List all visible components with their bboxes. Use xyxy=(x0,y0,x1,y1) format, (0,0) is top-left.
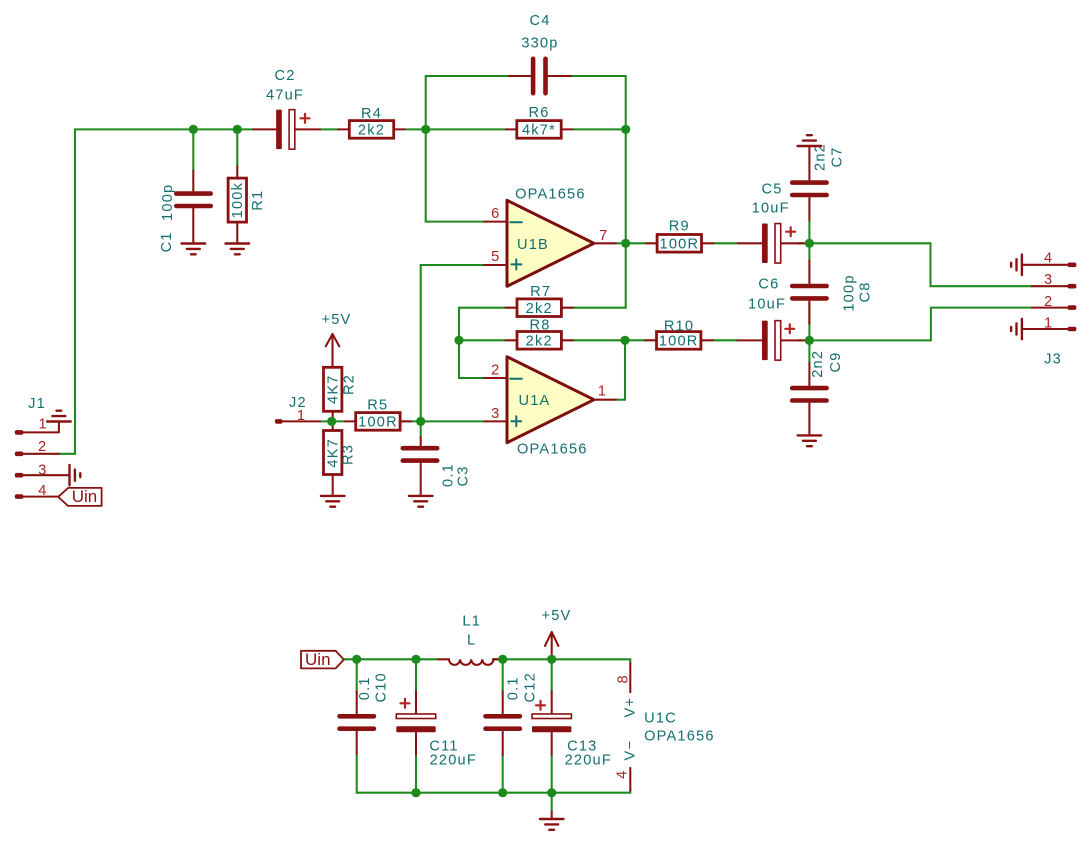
svg-text:R1: R1 xyxy=(250,190,266,211)
wire xyxy=(320,128,338,130)
wire xyxy=(400,420,484,422)
junction xyxy=(416,417,425,426)
ground xyxy=(798,435,822,446)
wire xyxy=(236,129,238,166)
svg-text:C12: C12 xyxy=(522,672,538,702)
ground xyxy=(321,496,345,507)
svg-text:3: 3 xyxy=(491,406,500,422)
svg-text:U1A: U1A xyxy=(519,393,551,409)
capacitor C4 xyxy=(509,13,571,96)
junction xyxy=(454,336,463,345)
wire xyxy=(551,659,553,792)
wire xyxy=(192,129,194,170)
wire xyxy=(808,302,810,363)
svg-text:C5: C5 xyxy=(761,181,782,197)
svg-text:U1C: U1C xyxy=(644,711,677,727)
svg-text:7: 7 xyxy=(599,228,608,244)
capacitor C13 xyxy=(532,691,612,768)
svg-text:4K7: 4K7 xyxy=(326,374,342,404)
wire xyxy=(356,659,358,792)
junction xyxy=(189,125,198,134)
capacitor C12 xyxy=(483,672,538,755)
svg-text:V−: V− xyxy=(622,740,638,761)
svg-text:0.1: 0.1 xyxy=(357,676,373,700)
svg-text:3: 3 xyxy=(38,462,47,478)
ground xyxy=(798,135,822,146)
ground xyxy=(70,465,81,485)
svg-text:4: 4 xyxy=(38,483,47,499)
resistor R10 xyxy=(645,318,712,349)
power +5V xyxy=(322,312,352,367)
wire xyxy=(420,421,422,437)
wire xyxy=(713,242,737,244)
wire xyxy=(572,128,625,130)
capacitor C10 xyxy=(337,672,390,754)
svg-text:J1: J1 xyxy=(28,396,46,412)
svg-text:R2: R2 xyxy=(341,374,357,395)
wire xyxy=(551,793,553,812)
svg-text:1: 1 xyxy=(598,383,607,399)
svg-text:OPA1656: OPA1656 xyxy=(644,728,715,744)
svg-text:U1B: U1B xyxy=(517,237,549,253)
polarity + xyxy=(785,324,794,333)
svg-text:OPA1656: OPA1656 xyxy=(515,186,586,202)
resistor R9 xyxy=(646,219,713,253)
svg-text:5: 5 xyxy=(491,249,500,265)
global label Uin xyxy=(301,650,344,669)
svg-text:10uF: 10uF xyxy=(752,200,790,216)
ground xyxy=(1011,319,1022,339)
svg-text:1: 1 xyxy=(297,408,306,424)
svg-text:Uin: Uin xyxy=(72,487,98,506)
svg-text:47uF: 47uF xyxy=(266,87,304,103)
wire xyxy=(502,659,504,792)
svg-text:2n2: 2n2 xyxy=(810,350,826,378)
svg-text:C7: C7 xyxy=(830,146,846,167)
connector J3 xyxy=(1022,251,1077,368)
capacitor C8 xyxy=(790,260,874,324)
junction xyxy=(352,655,361,664)
svg-text:C3: C3 xyxy=(455,465,471,486)
wire xyxy=(808,220,810,260)
svg-text:100R: 100R xyxy=(659,334,699,350)
capacitor C1 xyxy=(159,171,213,253)
svg-text:0.1: 0.1 xyxy=(506,676,522,700)
junction xyxy=(621,125,630,134)
junction xyxy=(547,655,556,664)
svg-text:3: 3 xyxy=(1044,272,1053,288)
wire xyxy=(344,658,438,660)
svg-text:R5: R5 xyxy=(367,398,388,414)
svg-text:100R: 100R xyxy=(660,237,700,253)
junction xyxy=(411,788,420,797)
svg-text:100R: 100R xyxy=(358,415,398,431)
svg-text:8: 8 xyxy=(616,674,632,683)
wire xyxy=(798,243,1032,286)
wire xyxy=(426,129,484,221)
resistor R1 xyxy=(228,166,266,244)
capacitor C7 xyxy=(790,143,846,220)
resistor R4 xyxy=(338,106,404,139)
ground xyxy=(47,411,71,422)
svg-text:R4: R4 xyxy=(361,106,382,122)
svg-text:Uin: Uin xyxy=(305,650,331,669)
svg-text:+5V: +5V xyxy=(542,608,572,624)
junction xyxy=(498,788,507,797)
svg-text:R10: R10 xyxy=(664,318,694,334)
junction xyxy=(498,655,507,664)
op-amp U1A xyxy=(484,357,616,458)
resistor R3 xyxy=(324,421,357,496)
wire xyxy=(405,128,506,130)
svg-text:C10: C10 xyxy=(374,672,390,702)
ground xyxy=(1011,255,1022,275)
svg-text:4: 4 xyxy=(1044,251,1053,267)
svg-text:330p: 330p xyxy=(521,36,558,52)
capacitor C2 xyxy=(253,68,320,149)
junction xyxy=(411,655,420,664)
wire xyxy=(426,76,509,129)
svg-text:2k2: 2k2 xyxy=(526,301,553,317)
wire xyxy=(59,129,253,453)
svg-text:2: 2 xyxy=(38,439,47,455)
svg-text:C2: C2 xyxy=(274,68,295,84)
svg-text:1: 1 xyxy=(39,417,48,433)
wire xyxy=(571,76,626,129)
junction xyxy=(805,336,814,345)
svg-text:OPA1656: OPA1656 xyxy=(517,442,588,458)
wire xyxy=(357,789,631,793)
resistor R5 xyxy=(345,398,412,431)
svg-text:2k2: 2k2 xyxy=(526,334,553,350)
svg-text:2k2: 2k2 xyxy=(358,123,385,139)
polarity + xyxy=(536,701,545,710)
junction xyxy=(233,125,242,134)
svg-text:R3: R3 xyxy=(341,444,357,465)
svg-text:C4: C4 xyxy=(529,13,550,29)
connector J1 xyxy=(15,396,70,499)
polarity + xyxy=(301,114,310,123)
resistor R6 xyxy=(506,105,573,139)
wire xyxy=(798,308,1032,341)
inductor L1 xyxy=(438,614,501,665)
wire xyxy=(320,420,345,422)
capacitor C11 xyxy=(396,691,477,768)
resistor R2 xyxy=(324,367,358,421)
svg-text:C9: C9 xyxy=(828,351,844,372)
svg-text:100p: 100p xyxy=(160,184,176,221)
ground xyxy=(409,496,433,507)
wire xyxy=(459,339,506,341)
resistor R7 xyxy=(506,284,573,317)
svg-text:4K7: 4K7 xyxy=(326,438,342,468)
power +5V xyxy=(542,608,572,659)
svg-text:J3: J3 xyxy=(1044,351,1062,367)
svg-text:4k7*: 4k7* xyxy=(522,123,556,139)
polarity + xyxy=(401,699,410,708)
svg-text:R9: R9 xyxy=(669,219,690,235)
svg-text:220uF: 220uF xyxy=(565,752,612,768)
wire xyxy=(573,339,646,341)
wire xyxy=(459,308,506,378)
svg-text:L: L xyxy=(467,632,476,648)
resistor R8 xyxy=(506,317,573,349)
svg-text:220uF: 220uF xyxy=(430,752,477,768)
wire xyxy=(616,242,646,244)
svg-text:R8: R8 xyxy=(529,317,550,333)
svg-text:2n2: 2n2 xyxy=(812,143,828,171)
svg-text:2: 2 xyxy=(491,363,500,379)
global label Uin xyxy=(58,487,101,506)
capacitor C9 xyxy=(790,350,844,436)
wire xyxy=(573,129,626,307)
svg-text:R6: R6 xyxy=(528,105,549,121)
connector J2 xyxy=(275,395,320,424)
svg-text:C8: C8 xyxy=(858,281,874,302)
svg-text:+5V: +5V xyxy=(322,312,352,328)
svg-text:2: 2 xyxy=(1044,294,1053,310)
svg-text:100k: 100k xyxy=(230,182,246,218)
junction xyxy=(421,125,430,134)
wire xyxy=(493,659,631,663)
junction xyxy=(620,336,629,345)
svg-text:6: 6 xyxy=(491,206,500,222)
svg-text:V+: V+ xyxy=(622,697,638,718)
svg-text:C1: C1 xyxy=(159,231,175,252)
svg-text:L1: L1 xyxy=(462,614,481,630)
wire xyxy=(421,265,484,421)
junction xyxy=(805,239,814,248)
svg-text:10uF: 10uF xyxy=(748,297,786,313)
op-amp U1C power pins xyxy=(614,663,714,790)
junction xyxy=(621,239,630,248)
polarity + xyxy=(786,227,795,236)
wire xyxy=(713,339,738,341)
capacitor C6 xyxy=(738,277,804,361)
ground xyxy=(540,812,564,830)
junction xyxy=(547,788,556,797)
wire xyxy=(415,659,417,792)
svg-text:4: 4 xyxy=(614,770,630,779)
capacitor C5 xyxy=(738,181,804,263)
svg-text:100p: 100p xyxy=(841,274,857,311)
ground xyxy=(226,244,250,255)
capacitor C3 xyxy=(401,437,472,496)
svg-text:C6: C6 xyxy=(758,277,779,293)
wire xyxy=(616,340,625,399)
svg-text:0.1: 0.1 xyxy=(441,463,457,487)
op-amp U1B xyxy=(484,186,616,286)
junction xyxy=(327,417,336,426)
ground xyxy=(182,244,206,255)
svg-text:R7: R7 xyxy=(530,284,551,300)
svg-text:1: 1 xyxy=(1044,315,1053,331)
